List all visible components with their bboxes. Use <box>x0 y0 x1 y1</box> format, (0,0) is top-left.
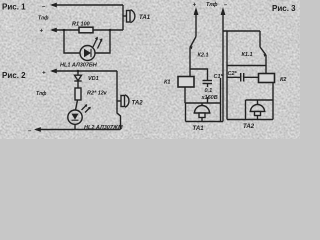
svg-text:Рис. 1: Рис. 1 <box>2 3 26 12</box>
speaker TA1 stub <box>123 15 127 17</box>
node: plus arrow fig1 <box>50 28 57 33</box>
wire: top (plus) wire fig2 <box>52 70 117 72</box>
node: minus arrow fig2 <box>34 127 41 132</box>
svg-text:R1 100: R1 100 <box>72 22 90 28</box>
svg-text:+: + <box>42 71 46 77</box>
LED HL1 diode triangle <box>84 49 91 57</box>
paper background <box>0 0 300 139</box>
capacitor C1 plates <box>203 80 213 82</box>
svg-text:Тлф: Тлф <box>38 15 49 22</box>
TA1 box <box>186 78 224 122</box>
svg-text:ТА1: ТА1 <box>193 126 205 132</box>
svg-text:0,1: 0,1 <box>205 88 213 94</box>
svg-text:R2* 12к: R2* 12к <box>87 91 108 97</box>
node: minus arrow fig1 <box>50 3 57 8</box>
svg-text:К2: К2 <box>280 77 286 83</box>
node: up arrow minus fig3 <box>221 7 226 15</box>
wire: top (minus) wire fig1 <box>52 4 123 6</box>
wire: bottom (minus) wire fig2 <box>36 129 121 131</box>
wire LED to bottom fig2 <box>74 124 76 129</box>
svg-text:Рис. 3: Рис. 3 <box>272 4 296 13</box>
svg-text:х160В: х160В <box>201 95 218 101</box>
svg-text:К1.1: К1.1 <box>242 52 253 58</box>
svg-text:Рис. 2: Рис. 2 <box>2 71 26 80</box>
speaker TA2 capsule <box>121 96 125 107</box>
wire: minus drop fig3 (return) <box>222 13 224 122</box>
relay coil K2 <box>259 74 275 83</box>
LED HL2 diode triangle <box>72 114 79 120</box>
svg-text:ТА1: ТА1 <box>139 15 151 21</box>
svg-text:С2*: С2* <box>228 71 238 77</box>
LED HL2 circle <box>68 110 82 124</box>
svg-text:+: + <box>193 3 197 9</box>
svg-text:НL2 АЛ307ЖМ: НL2 АЛ307ЖМ <box>84 125 123 131</box>
wire: K1.1 lower <box>265 55 267 74</box>
speaker TA1 capsule <box>127 11 131 23</box>
wire: junction to C1 <box>190 69 208 80</box>
capacitor C2 leads <box>227 76 259 78</box>
svg-text:К1: К1 <box>164 80 170 86</box>
speaker TA2 stub <box>117 100 121 102</box>
relay coil K1 <box>178 77 194 88</box>
wire: second return vertical <box>226 31 228 120</box>
wire: bottom (plus) wire fig1 <box>52 29 123 31</box>
svg-text:Тлф: Тлф <box>206 1 218 8</box>
diode VD1 <box>77 71 79 75</box>
node junction right fig1 <box>109 29 112 32</box>
wire: node row right cell <box>227 65 266 67</box>
contact K2.1 blade <box>190 37 196 48</box>
svg-text:HL1 АЛ307БН: HL1 АЛ307БН <box>60 63 98 69</box>
resistor R2 <box>75 88 81 100</box>
wire: to junction <box>189 48 191 77</box>
wire: right vertical to TA1 <box>122 5 124 30</box>
svg-text:С1*: С1* <box>214 74 224 80</box>
node junction fig2 <box>77 70 80 73</box>
LED HL1 circle <box>80 46 95 61</box>
wire: right vertical fig2 <box>117 71 121 130</box>
node: up arrow plus fig3 <box>194 7 199 15</box>
telephone TA2 dome <box>257 100 259 105</box>
TA2 box <box>227 100 273 120</box>
resistor R1 <box>79 27 93 33</box>
wire: K1 to TA1 box <box>184 87 186 103</box>
contact K1.1 blade <box>260 47 266 55</box>
wire: C1 bottom lead <box>207 84 209 88</box>
svg-text:Тлф: Тлф <box>36 90 47 97</box>
svg-text:+: + <box>40 29 44 35</box>
node junction left fig1 <box>63 29 66 32</box>
node: plus arrow fig2 <box>50 69 57 74</box>
svg-text:ТА2: ТА2 <box>243 124 255 130</box>
wire: plus drop fig3 <box>195 13 197 37</box>
wire: jog to right cell <box>223 30 260 32</box>
svg-text:К2.1: К2.1 <box>198 53 209 59</box>
LED HL1 emission arrows <box>93 38 97 47</box>
svg-text:ТА2: ТА2 <box>132 101 144 107</box>
contact K1.1 upper wire <box>259 31 261 47</box>
capacitor C2 plates <box>240 73 242 82</box>
wire: K2 to TA2 box <box>272 83 274 101</box>
wire: LED parallel loop fig1 <box>64 30 110 53</box>
telephone TA1 dome <box>201 103 203 106</box>
LED HL2 emission arrows <box>82 105 88 111</box>
svg-text:VD1: VD1 <box>88 76 99 82</box>
wire resistor to LED <box>76 100 78 110</box>
